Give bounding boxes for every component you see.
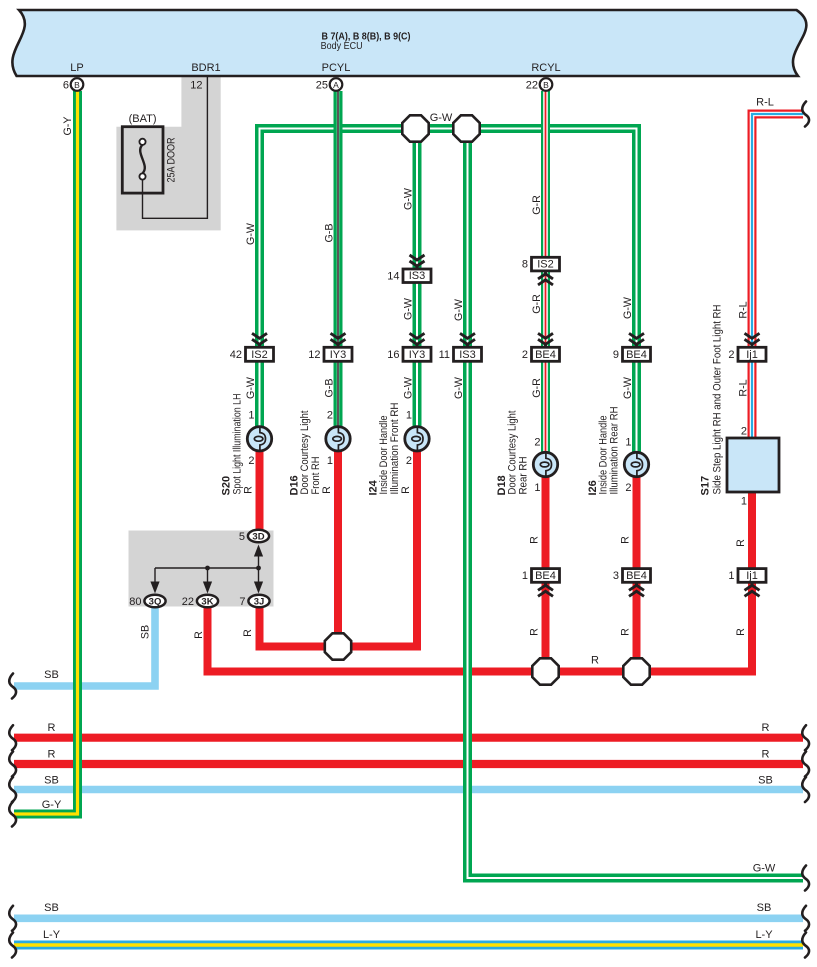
svg-text:42: 42 — [230, 349, 242, 361]
svg-text:G-W: G-W — [622, 376, 634, 399]
svg-text:R: R — [529, 536, 541, 544]
svg-text:2: 2 — [741, 426, 747, 438]
svg-text:7: 7 — [239, 596, 245, 608]
svg-text:8: 8 — [522, 259, 528, 271]
svg-text:3Q: 3Q — [149, 596, 162, 607]
svg-text:R: R — [400, 486, 412, 494]
svg-text:2: 2 — [728, 349, 734, 361]
svg-text:BDR1: BDR1 — [191, 62, 220, 74]
svg-text:12: 12 — [308, 349, 320, 361]
svg-text:2: 2 — [406, 455, 412, 467]
svg-text:R: R — [735, 628, 747, 636]
svg-text:G-W: G-W — [453, 298, 465, 321]
svg-text:R-L: R-L — [738, 301, 750, 318]
svg-text:16: 16 — [387, 349, 399, 361]
svg-text:SB: SB — [44, 902, 59, 914]
svg-text:6: 6 — [63, 80, 69, 92]
svg-text:IS2: IS2 — [251, 349, 268, 361]
svg-text:SB: SB — [757, 902, 772, 914]
svg-text:22: 22 — [182, 596, 194, 608]
svg-text:12: 12 — [190, 80, 202, 92]
svg-text:1: 1 — [248, 409, 254, 421]
svg-text:G-W: G-W — [403, 297, 415, 320]
svg-text:R: R — [48, 749, 56, 761]
svg-text:5: 5 — [239, 531, 245, 543]
svg-text:L-Y: L-Y — [43, 929, 61, 941]
svg-text:1: 1 — [625, 437, 631, 449]
svg-text:2: 2 — [327, 409, 333, 421]
svg-text:R: R — [321, 486, 333, 494]
svg-text:Front RH: Front RH — [310, 457, 322, 495]
svg-text:(BAT): (BAT) — [129, 113, 157, 125]
svg-text:BE4: BE4 — [535, 570, 556, 582]
svg-text:Body ECU: Body ECU — [321, 40, 363, 52]
svg-text:80: 80 — [129, 596, 141, 608]
svg-text:G-W: G-W — [430, 112, 453, 124]
svg-text:22: 22 — [526, 80, 538, 92]
svg-text:IS2: IS2 — [537, 259, 554, 271]
svg-text:L-Y: L-Y — [755, 929, 773, 941]
svg-text:R: R — [242, 629, 254, 637]
svg-text:BE4: BE4 — [535, 349, 556, 361]
svg-text:1: 1 — [327, 455, 333, 467]
svg-text:SB: SB — [44, 775, 59, 787]
svg-text:1: 1 — [728, 570, 734, 582]
svg-text:G-Y: G-Y — [62, 116, 74, 135]
svg-text:S17: S17 — [699, 476, 711, 496]
svg-text:3K: 3K — [201, 596, 213, 607]
svg-text:G-W: G-W — [403, 376, 415, 399]
svg-text:Rear RH: Rear RH — [517, 457, 529, 495]
svg-text:R-L: R-L — [756, 97, 774, 109]
svg-text:1: 1 — [534, 482, 540, 494]
svg-text:3J: 3J — [254, 596, 265, 607]
svg-text:1: 1 — [406, 409, 412, 421]
svg-text:SB: SB — [140, 625, 152, 639]
svg-text:R: R — [193, 631, 205, 639]
svg-text:G-B: G-B — [324, 378, 336, 397]
svg-text:PCYL: PCYL — [322, 62, 351, 74]
svg-text:2: 2 — [625, 482, 631, 494]
svg-text:25: 25 — [316, 80, 328, 92]
svg-text:2: 2 — [248, 455, 254, 467]
svg-text:G-W: G-W — [245, 222, 257, 245]
svg-text:B: B — [543, 80, 549, 90]
svg-text:9: 9 — [613, 349, 619, 361]
svg-text:Ij1: Ij1 — [746, 570, 758, 582]
svg-text:IY3: IY3 — [330, 349, 347, 361]
svg-text:R: R — [243, 486, 255, 494]
svg-text:Spot Light Illumination LH: Spot Light Illumination LH — [231, 394, 243, 495]
svg-text:G-W: G-W — [453, 376, 465, 399]
svg-text:2: 2 — [522, 349, 528, 361]
svg-text:LP: LP — [70, 62, 83, 74]
svg-text:G-B: G-B — [324, 223, 336, 242]
svg-text:IS3: IS3 — [409, 270, 426, 282]
svg-text:G-R: G-R — [531, 378, 543, 398]
svg-text:G-W: G-W — [622, 296, 634, 319]
svg-text:A: A — [333, 80, 339, 90]
svg-text:Side Step Light RH and Outer F: Side Step Light RH and Outer Foot Light … — [711, 305, 723, 495]
svg-text:R: R — [620, 628, 632, 636]
svg-text:G-W: G-W — [753, 863, 776, 875]
svg-text:2: 2 — [534, 437, 540, 449]
svg-text:G-R: G-R — [531, 195, 543, 215]
svg-text:R: R — [762, 749, 770, 761]
svg-text:G-R: G-R — [531, 294, 543, 314]
svg-text:SB: SB — [758, 775, 773, 787]
svg-text:R: R — [48, 722, 56, 734]
svg-text:3D: 3D — [252, 531, 264, 542]
svg-text:BE4: BE4 — [626, 570, 647, 582]
svg-text:R-L: R-L — [738, 379, 750, 396]
svg-text:14: 14 — [387, 270, 399, 282]
svg-text:R: R — [591, 655, 599, 667]
svg-text:IY3: IY3 — [409, 349, 426, 361]
svg-text:R: R — [735, 539, 747, 547]
svg-text:25A DOOR: 25A DOOR — [165, 137, 177, 182]
svg-text:B: B — [74, 80, 80, 90]
svg-text:1: 1 — [741, 496, 747, 508]
svg-text:G-W: G-W — [403, 187, 415, 210]
svg-text:G-W: G-W — [245, 376, 257, 399]
svg-text:Ij1: Ij1 — [746, 349, 758, 361]
svg-text:G-Y: G-Y — [42, 799, 62, 811]
svg-text:3: 3 — [613, 570, 619, 582]
svg-text:11: 11 — [439, 349, 450, 361]
svg-text:BE4: BE4 — [626, 349, 647, 361]
svg-text:R: R — [620, 536, 632, 544]
svg-text:Illumination Front RH: Illumination Front RH — [389, 403, 401, 495]
svg-text:RCYL: RCYL — [531, 62, 560, 74]
svg-text:R: R — [529, 628, 541, 636]
svg-text:IS3: IS3 — [459, 349, 476, 361]
svg-text:R: R — [762, 722, 770, 734]
svg-text:SB: SB — [44, 669, 59, 681]
svg-text:Illumination Rear RH: Illumination Rear RH — [608, 407, 620, 495]
svg-text:1: 1 — [522, 570, 528, 582]
